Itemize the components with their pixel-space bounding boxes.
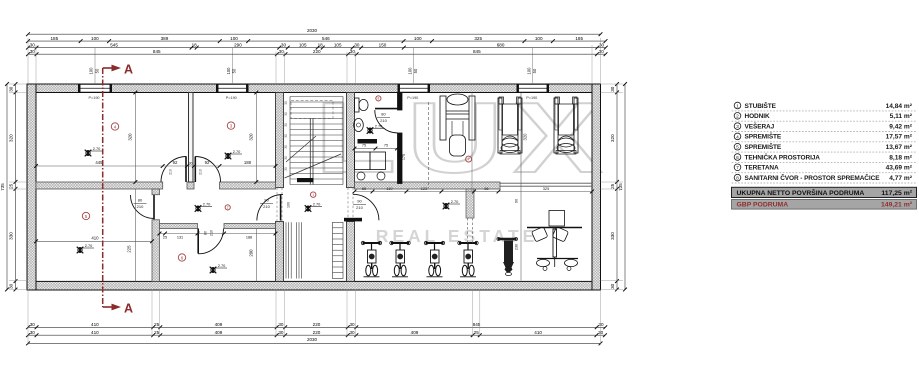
svg-text:LUX: LUX bbox=[315, 81, 613, 193]
svg-text:290: 290 bbox=[234, 42, 242, 47]
svg-text:STUBIŠTE: STUBIŠTE bbox=[745, 101, 777, 110]
svg-text:92: 92 bbox=[205, 160, 210, 165]
svg-text:117,25 m²: 117,25 m² bbox=[881, 190, 912, 197]
svg-text:30: 30 bbox=[284, 156, 288, 160]
svg-text:545: 545 bbox=[110, 42, 118, 47]
svg-text:30: 30 bbox=[30, 330, 36, 335]
svg-text:30: 30 bbox=[598, 322, 604, 327]
svg-text:14,84 m²: 14,84 m² bbox=[886, 103, 913, 110]
svg-text:25: 25 bbox=[154, 322, 160, 327]
svg-text:25: 25 bbox=[610, 183, 615, 189]
svg-text:4,77 m²: 4,77 m² bbox=[889, 175, 913, 182]
svg-text:1: 1 bbox=[736, 103, 739, 109]
svg-text:410: 410 bbox=[91, 322, 99, 327]
svg-text:75: 75 bbox=[384, 144, 388, 148]
svg-text:30: 30 bbox=[284, 101, 288, 105]
svg-text:50: 50 bbox=[232, 68, 237, 73]
svg-text:100: 100 bbox=[230, 36, 238, 41]
svg-text:6: 6 bbox=[736, 155, 739, 161]
svg-text:100: 100 bbox=[91, 36, 99, 41]
svg-text:30: 30 bbox=[281, 42, 287, 47]
svg-text:188: 188 bbox=[246, 236, 252, 240]
svg-text:30: 30 bbox=[30, 322, 36, 327]
svg-text:325: 325 bbox=[474, 36, 482, 41]
svg-text:90: 90 bbox=[264, 198, 269, 203]
svg-text:410: 410 bbox=[91, 330, 99, 335]
svg-text:30: 30 bbox=[284, 134, 288, 138]
svg-text:86: 86 bbox=[484, 186, 488, 191]
svg-text:409: 409 bbox=[411, 330, 419, 335]
svg-text:30: 30 bbox=[610, 86, 615, 92]
svg-text:30: 30 bbox=[30, 42, 36, 47]
svg-text:P=190: P=190 bbox=[526, 96, 537, 100]
svg-text:100: 100 bbox=[535, 36, 543, 41]
svg-text:30: 30 bbox=[354, 42, 360, 47]
svg-text:2.70: 2.70 bbox=[85, 243, 93, 248]
svg-text:2.70: 2.70 bbox=[313, 202, 321, 207]
svg-text:A: A bbox=[124, 63, 133, 77]
svg-text:2.70: 2.70 bbox=[93, 146, 101, 151]
svg-text:TERETANA: TERETANA bbox=[745, 165, 780, 172]
svg-text:320: 320 bbox=[249, 133, 254, 141]
svg-text:30: 30 bbox=[284, 112, 288, 116]
svg-text:P=190: P=190 bbox=[226, 96, 237, 100]
svg-text:2.70: 2.70 bbox=[218, 263, 226, 268]
svg-text:80: 80 bbox=[138, 198, 143, 203]
svg-text:320: 320 bbox=[8, 134, 13, 142]
svg-text:75: 75 bbox=[362, 144, 366, 148]
svg-text:30: 30 bbox=[598, 330, 604, 335]
svg-text:149,21 m²: 149,21 m² bbox=[881, 202, 913, 209]
svg-text:100: 100 bbox=[287, 202, 291, 208]
svg-text:30: 30 bbox=[599, 42, 605, 47]
svg-text:92: 92 bbox=[173, 160, 178, 165]
svg-text:30: 30 bbox=[278, 322, 284, 327]
svg-text:3: 3 bbox=[736, 124, 739, 130]
svg-text:30: 30 bbox=[8, 86, 13, 92]
svg-text:409: 409 bbox=[215, 330, 223, 335]
svg-text:30: 30 bbox=[284, 145, 288, 149]
svg-text:210: 210 bbox=[210, 230, 214, 236]
svg-text:131: 131 bbox=[177, 236, 183, 240]
svg-text:2: 2 bbox=[736, 114, 739, 120]
svg-text:30: 30 bbox=[350, 49, 356, 54]
svg-text:TEHNIČKA PROSTORIJA: TEHNIČKA PROSTORIJA bbox=[745, 152, 821, 161]
svg-text:119: 119 bbox=[386, 186, 392, 191]
svg-text:A: A bbox=[124, 302, 133, 316]
svg-text:90: 90 bbox=[357, 199, 362, 204]
svg-text:5,11 m²: 5,11 m² bbox=[890, 113, 913, 120]
svg-text:2030: 2030 bbox=[307, 28, 318, 33]
svg-text:30: 30 bbox=[189, 162, 193, 166]
svg-text:3: 3 bbox=[230, 123, 233, 128]
svg-text:HODNIK: HODNIK bbox=[745, 113, 770, 120]
svg-text:30: 30 bbox=[279, 49, 285, 54]
svg-text:30: 30 bbox=[349, 330, 355, 335]
svg-text:220: 220 bbox=[313, 49, 321, 54]
svg-text:220: 220 bbox=[313, 330, 321, 335]
svg-text:680: 680 bbox=[497, 42, 505, 47]
svg-text:105: 105 bbox=[299, 42, 307, 47]
svg-text:410: 410 bbox=[91, 236, 99, 241]
svg-text:123: 123 bbox=[421, 186, 428, 191]
svg-text:18: 18 bbox=[318, 42, 324, 47]
svg-text:25: 25 bbox=[154, 330, 160, 335]
svg-text:185: 185 bbox=[50, 36, 58, 41]
svg-text:225: 225 bbox=[127, 245, 132, 253]
svg-text:8: 8 bbox=[378, 97, 380, 101]
svg-text:30: 30 bbox=[599, 49, 605, 54]
svg-text:410: 410 bbox=[534, 330, 542, 335]
svg-text:735: 735 bbox=[618, 183, 623, 191]
svg-text:P=190: P=190 bbox=[407, 96, 418, 100]
svg-text:7: 7 bbox=[468, 158, 470, 162]
svg-text:2: 2 bbox=[227, 206, 229, 210]
svg-text:320: 320 bbox=[610, 134, 615, 142]
svg-text:330: 330 bbox=[610, 232, 615, 240]
svg-text:320: 320 bbox=[128, 133, 133, 141]
svg-text:25: 25 bbox=[163, 236, 167, 240]
svg-text:9,42 m²: 9,42 m² bbox=[889, 123, 913, 130]
svg-text:2030: 2030 bbox=[307, 337, 318, 342]
svg-text:5: 5 bbox=[736, 145, 739, 151]
svg-text:50: 50 bbox=[532, 68, 537, 73]
svg-text:18: 18 bbox=[192, 42, 198, 47]
svg-text:409: 409 bbox=[215, 322, 223, 327]
svg-text:2.70: 2.70 bbox=[233, 149, 241, 154]
svg-text:210: 210 bbox=[137, 204, 144, 209]
svg-text:30: 30 bbox=[349, 322, 355, 327]
svg-text:65: 65 bbox=[362, 186, 366, 191]
svg-text:17,57 m²: 17,57 m² bbox=[886, 134, 913, 141]
svg-text:25: 25 bbox=[474, 330, 480, 335]
svg-text:90: 90 bbox=[515, 199, 519, 203]
svg-text:210: 210 bbox=[356, 205, 363, 210]
svg-text:2.70: 2.70 bbox=[375, 124, 383, 129]
svg-text:80: 80 bbox=[381, 112, 386, 117]
svg-text:330: 330 bbox=[8, 232, 13, 240]
svg-text:210: 210 bbox=[380, 118, 387, 123]
svg-text:185: 185 bbox=[575, 36, 583, 41]
svg-text:7: 7 bbox=[736, 165, 739, 171]
svg-text:175: 175 bbox=[402, 154, 406, 160]
svg-text:4: 4 bbox=[114, 124, 117, 129]
svg-text:210: 210 bbox=[199, 169, 203, 175]
svg-text:30: 30 bbox=[610, 283, 615, 289]
svg-text:100: 100 bbox=[89, 67, 94, 75]
svg-text:220: 220 bbox=[313, 322, 321, 327]
svg-text:325: 325 bbox=[543, 186, 550, 191]
svg-text:845: 845 bbox=[473, 322, 481, 327]
svg-text:1: 1 bbox=[312, 193, 314, 197]
svg-text:P=190: P=190 bbox=[88, 96, 99, 100]
svg-text:845: 845 bbox=[473, 49, 481, 54]
svg-text:25: 25 bbox=[8, 183, 13, 189]
svg-text:80: 80 bbox=[204, 231, 208, 235]
svg-text:VEŠERAJ: VEŠERAJ bbox=[745, 121, 775, 130]
svg-text:GBP PODRUMA: GBP PODRUMA bbox=[737, 202, 789, 209]
svg-text:210: 210 bbox=[263, 204, 270, 209]
svg-text:105: 105 bbox=[334, 42, 342, 47]
svg-text:100: 100 bbox=[414, 36, 422, 41]
svg-text:13,67 m²: 13,67 m² bbox=[886, 144, 913, 151]
svg-text:188: 188 bbox=[244, 160, 252, 165]
svg-text:845: 845 bbox=[153, 49, 161, 54]
svg-text:8: 8 bbox=[736, 176, 739, 182]
svg-text:30: 30 bbox=[284, 167, 288, 171]
svg-text:30: 30 bbox=[284, 123, 288, 127]
svg-text:200: 200 bbox=[249, 249, 254, 257]
svg-text:30: 30 bbox=[30, 49, 36, 54]
svg-text:50: 50 bbox=[94, 68, 99, 73]
svg-text:UKUPNA NETTO POVRŠINA PODRUMA: UKUPNA NETTO POVRŠINA PODRUMA bbox=[737, 188, 865, 197]
svg-text:SPREMIŠTE: SPREMIŠTE bbox=[745, 142, 782, 151]
svg-text:100: 100 bbox=[407, 67, 412, 75]
svg-text:2.70: 2.70 bbox=[451, 199, 459, 204]
svg-text:2.70: 2.70 bbox=[203, 202, 211, 207]
svg-text:389: 389 bbox=[161, 36, 169, 41]
svg-text:5: 5 bbox=[85, 214, 88, 219]
svg-text:8,18 m²: 8,18 m² bbox=[889, 154, 913, 161]
svg-text:735: 735 bbox=[0, 183, 5, 191]
svg-text:546: 546 bbox=[322, 36, 330, 41]
svg-text:50: 50 bbox=[413, 68, 418, 73]
svg-text:SANITARNI ČVOR - PROSTOR SPREM: SANITARNI ČVOR - PROSTOR SPREMAČICE bbox=[745, 173, 881, 182]
svg-text:150: 150 bbox=[379, 42, 387, 47]
svg-text:30: 30 bbox=[278, 330, 284, 335]
svg-text:6: 6 bbox=[181, 255, 184, 260]
svg-text:43,69 m²: 43,69 m² bbox=[886, 165, 913, 172]
svg-text:210: 210 bbox=[169, 169, 173, 175]
svg-text:320: 320 bbox=[523, 133, 528, 141]
svg-text:230: 230 bbox=[515, 244, 519, 250]
svg-text:100: 100 bbox=[226, 67, 231, 75]
svg-text:4: 4 bbox=[736, 134, 739, 140]
svg-text:SPREMIŠTE: SPREMIŠTE bbox=[745, 132, 782, 141]
svg-text:100: 100 bbox=[526, 67, 531, 75]
